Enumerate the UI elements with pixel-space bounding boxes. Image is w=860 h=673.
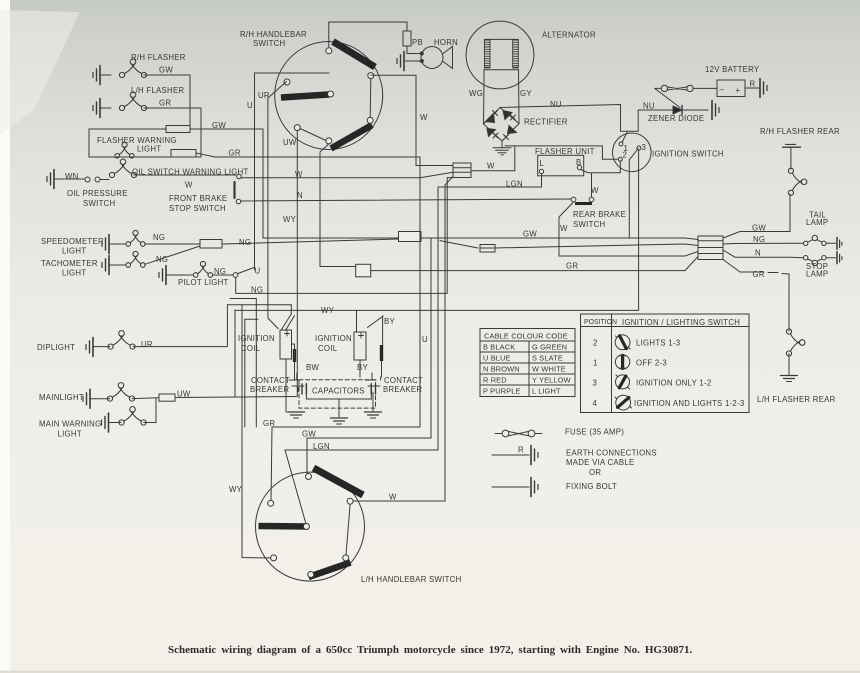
oil pressure switch contacts bbox=[85, 177, 90, 182]
svg-text:GR: GR bbox=[263, 419, 275, 428]
ground for tachometer light bbox=[102, 256, 109, 275]
wire NU from rectifier to ignition switch bbox=[500, 105, 621, 132]
svg-text:CONTACT: CONTACT bbox=[251, 376, 290, 385]
svg-text:TACHOMETER: TACHOMETER bbox=[41, 259, 98, 268]
lamp MAIN WARNING LIGHT bbox=[119, 407, 146, 426]
rectifier diamond bbox=[484, 108, 520, 142]
svg-text:UR: UR bbox=[258, 91, 270, 100]
svg-text:N: N bbox=[297, 191, 303, 200]
wire WY down to L/H switch bbox=[242, 305, 274, 558]
R/H switch terminal UR bbox=[284, 79, 290, 85]
R/H switch terminal bottom bbox=[326, 138, 332, 144]
svg-text:POSITION: POSITION bbox=[584, 319, 617, 326]
wire GR down to L/H switch bbox=[271, 157, 420, 503]
svg-text:NG: NG bbox=[753, 235, 765, 244]
svg-text:SWITCH: SWITCH bbox=[253, 39, 285, 48]
alternator coil left bbox=[484, 40, 490, 67]
wire PB to horn bbox=[407, 46, 421, 54]
svg-text:MADE VIA CABLE: MADE VIA CABLE bbox=[566, 458, 634, 467]
zener diode bbox=[673, 106, 682, 114]
svg-text:R: R bbox=[518, 446, 524, 455]
svg-text:LIGHT: LIGHT bbox=[62, 269, 86, 278]
capacitor plates left bbox=[302, 384, 306, 394]
svg-text:PILOT LIGHT: PILOT LIGHT bbox=[178, 278, 229, 287]
svg-text:FRONT BRAKE: FRONT BRAKE bbox=[169, 194, 227, 203]
wire coil1 BW lead down bbox=[286, 344, 295, 412]
svg-text:OIL PRESSURE: OIL PRESSURE bbox=[67, 189, 128, 198]
svg-text:SWITCH: SWITCH bbox=[83, 199, 115, 208]
switch position icon 3 bbox=[616, 375, 630, 389]
svg-text:FLASHER UNIT: FLASHER UNIT bbox=[535, 147, 595, 156]
wire LGN run to L/H switch bbox=[285, 450, 438, 524]
zener lead to ground bbox=[682, 109, 708, 111]
ignition coil 2 bbox=[354, 332, 366, 360]
fuse on GW line bbox=[166, 126, 190, 133]
svg-text:LAMP: LAMP bbox=[806, 218, 828, 227]
ground for battery bbox=[760, 79, 767, 98]
ground for pilot light bbox=[159, 266, 166, 285]
svg-text:L LIGHT: L LIGHT bbox=[532, 387, 561, 396]
wire from top terminal to PB bbox=[329, 22, 407, 48]
flasher unit terminal L bbox=[539, 169, 543, 173]
wire NG bus right bbox=[222, 239, 399, 244]
L/H switch terminal bottom bbox=[308, 572, 314, 578]
svg-text:NG: NG bbox=[153, 233, 165, 242]
svg-text:U: U bbox=[255, 267, 261, 276]
svg-text:ALTERNATOR: ALTERNATOR bbox=[542, 31, 596, 40]
wire NU battery feed diagonal bbox=[655, 88, 680, 107]
wire LGN from flasher unit L bbox=[438, 174, 542, 450]
alternator frame bbox=[484, 39, 519, 69]
svg-text:BY: BY bbox=[357, 363, 368, 372]
svg-text:W WHITE: W WHITE bbox=[532, 365, 566, 374]
svg-text:R: R bbox=[750, 80, 756, 89]
wire GW to tail lamp circuit bbox=[723, 194, 790, 238]
svg-text:U: U bbox=[422, 335, 428, 344]
svg-text:–: – bbox=[720, 85, 725, 94]
rear brake switch contact bar bbox=[575, 202, 592, 205]
fuse on battery lead bbox=[661, 85, 667, 91]
svg-text:1: 1 bbox=[593, 359, 598, 368]
R/H switch contact bar middle bbox=[281, 95, 329, 98]
svg-text:PB: PB bbox=[412, 38, 423, 47]
connector block front harness bbox=[453, 163, 471, 178]
sleeve on coil 1 lead bbox=[293, 349, 296, 362]
wire NG from pilot switch bbox=[236, 178, 453, 294]
svg-text:B BLACK: B BLACK bbox=[483, 343, 515, 352]
wire UW riser bbox=[234, 310, 236, 397]
flasher unit terminal B bbox=[577, 165, 581, 169]
svg-text:+: + bbox=[736, 86, 741, 95]
switch position icon 2 bbox=[615, 335, 630, 350]
lamp PILOT LIGHT bbox=[193, 261, 212, 277]
wire UR terminal down to coil bbox=[268, 82, 287, 329]
wire W run from L/H switch bbox=[353, 177, 453, 502]
link wire right terminals bbox=[369, 79, 372, 118]
L/H switch terminal right bbox=[347, 498, 353, 504]
inline connector on GR run bbox=[356, 264, 371, 277]
svg-text:OR: OR bbox=[589, 468, 601, 477]
svg-text:W: W bbox=[185, 181, 193, 190]
svg-text:WY: WY bbox=[283, 215, 297, 224]
wire NU to terminal 1 bbox=[621, 131, 639, 142]
wire coil2 BY lead down bbox=[360, 360, 382, 377]
wire GR to L/H flasher rear bbox=[723, 260, 789, 332]
svg-text:NG: NG bbox=[239, 238, 251, 247]
svg-text:STOP SWITCH: STOP SWITCH bbox=[169, 204, 226, 213]
svg-text:SWITCH: SWITCH bbox=[573, 220, 605, 229]
lamp TACHOMETER LIGHT bbox=[126, 251, 145, 267]
svg-text:IGNITION SWITCH: IGNITION SWITCH bbox=[652, 150, 724, 159]
wire NG to tail lamp bbox=[723, 242, 804, 245]
svg-text:CONTACT: CONTACT bbox=[384, 376, 423, 385]
L/H switch contact bar top bbox=[314, 468, 364, 495]
svg-text:NG: NG bbox=[251, 286, 263, 295]
fuse on NG line bbox=[200, 240, 222, 249]
svg-text:SPEEDOMETER: SPEEDOMETER bbox=[41, 237, 104, 246]
wire NU ignition to zener bbox=[638, 110, 672, 131]
svg-text:L/H FLASHER: L/H FLASHER bbox=[131, 86, 184, 95]
svg-text:12V BATTERY: 12V BATTERY bbox=[705, 65, 760, 74]
node terminal before front brake switch bbox=[237, 174, 242, 179]
wire WY into coil 1 bbox=[282, 305, 295, 331]
wire BY diagonal at coil 2 bbox=[367, 316, 383, 345]
svg-text:HORN: HORN bbox=[434, 38, 458, 47]
wire GW bus to the right bbox=[190, 129, 263, 238]
L/H switch terminal left-lower bbox=[271, 555, 277, 561]
svg-text:BREAKER: BREAKER bbox=[250, 385, 289, 394]
wire rectifier to ground bbox=[501, 141, 503, 148]
svg-text:ZENER DIODE: ZENER DIODE bbox=[648, 114, 704, 123]
legend earth via cable symbol bbox=[492, 454, 529, 456]
svg-text:B: B bbox=[576, 158, 581, 167]
ground for capacitors bbox=[331, 418, 348, 424]
rectifier diode top-right bbox=[503, 111, 512, 120]
wire GW from R/H flasher bbox=[144, 75, 190, 126]
alternator lead WG bbox=[483, 70, 486, 124]
lamp FLASHER WARNING LIGHT bbox=[115, 142, 134, 158]
svg-text:UW: UW bbox=[283, 138, 297, 147]
R/H switch terminal mid-right bbox=[328, 91, 334, 97]
svg-text:W: W bbox=[295, 170, 303, 179]
wire rear brake to stop lamp N bbox=[559, 202, 698, 256]
link wire UW terminal to bottom terminal bbox=[300, 129, 326, 141]
svg-text:L: L bbox=[540, 159, 545, 168]
lamp STOP LAMP bbox=[804, 256, 808, 260]
ground for main warning light bbox=[102, 413, 109, 432]
R/H switch terminal right-upper bbox=[368, 73, 374, 79]
svg-text:W: W bbox=[389, 493, 397, 502]
R/H handlebar switch body bbox=[275, 42, 383, 150]
svg-text:L/H FLASHER REAR: L/H FLASHER REAR bbox=[757, 395, 836, 404]
L/H switch terminal left bbox=[268, 500, 274, 506]
wire ground to main warning light bbox=[109, 422, 122, 424]
svg-text:W: W bbox=[591, 186, 599, 195]
wire ground to horn bbox=[404, 60, 420, 62]
wire ground to diplight bbox=[93, 346, 110, 348]
bottom edge scan line bbox=[0, 671, 860, 673]
rectifier diode bottom-left bbox=[487, 129, 496, 137]
wire pilot light to switch bbox=[213, 274, 233, 276]
ground for horn bbox=[397, 52, 404, 71]
ignition switch terminal 1 bbox=[619, 142, 623, 146]
lamp SPEEDOMETER LIGHT bbox=[126, 230, 145, 246]
R/H switch terminal UW bbox=[294, 125, 300, 131]
ground for diplight bbox=[86, 338, 93, 357]
wire W node to ignition terminal 2 bbox=[505, 146, 618, 159]
svg-text:P PURPLE: P PURPLE bbox=[483, 387, 521, 396]
svg-text:Y YELLOW: Y YELLOW bbox=[532, 376, 571, 385]
switch position icon 4 bbox=[616, 395, 631, 410]
ground for R/H flasher rear bbox=[783, 146, 801, 148]
connector block rear harness bbox=[698, 236, 723, 260]
svg-text:W: W bbox=[420, 113, 428, 122]
rear brake switch terminal left bbox=[571, 197, 576, 202]
wire N to stop lamp bbox=[723, 250, 804, 258]
svg-text:LIGHT: LIGHT bbox=[58, 430, 82, 439]
svg-text:REAR BRAKE: REAR BRAKE bbox=[573, 210, 626, 219]
svg-text:CABLE COLOUR CODE: CABLE COLOUR CODE bbox=[484, 332, 568, 341]
svg-text:GR: GR bbox=[229, 149, 241, 158]
svg-text:GR: GR bbox=[566, 262, 578, 271]
svg-text:N: N bbox=[755, 249, 761, 258]
svg-text:MAIN WARNING: MAIN WARNING bbox=[39, 420, 101, 429]
svg-text:COIL: COIL bbox=[241, 344, 261, 353]
svg-text:FIXING BOLT: FIXING BOLT bbox=[566, 482, 617, 491]
wire W from horn switch down bbox=[371, 75, 453, 165]
svg-text:U BLUE: U BLUE bbox=[483, 354, 511, 363]
R/H switch contact bar bottom bbox=[331, 125, 372, 149]
wire W connector to rectifier ground node bbox=[471, 146, 515, 171]
battery 12V bbox=[717, 80, 745, 97]
svg-text:IGNITION AND LIGHTS 1-2-3: IGNITION AND LIGHTS 1-2-3 bbox=[634, 399, 745, 408]
svg-text:DIPLIGHT: DIPLIGHT bbox=[37, 343, 75, 352]
svg-text:GW: GW bbox=[212, 121, 226, 130]
ground for zener bbox=[712, 101, 719, 120]
svg-text:CAPACITORS: CAPACITORS bbox=[312, 387, 365, 396]
svg-text:R/H FLASHER REAR: R/H FLASHER REAR bbox=[760, 127, 840, 136]
svg-text:N BROWN: N BROWN bbox=[483, 365, 520, 374]
ignition switch body bbox=[613, 133, 652, 172]
horn terminal lower bbox=[420, 59, 423, 62]
lamp TAIL LAMP bbox=[804, 241, 808, 245]
wire from flasher unit B to ignition bbox=[581, 161, 621, 173]
ignition lighting switch table bbox=[581, 314, 750, 413]
alternator body bbox=[466, 21, 534, 89]
svg-text:4: 4 bbox=[593, 399, 598, 408]
wire from R/H switch bottom terminal bbox=[320, 144, 356, 267]
contact breaker left symbol bbox=[289, 373, 304, 386]
coil compartment line bbox=[245, 319, 258, 427]
lamp L/H FLASHER REAR bbox=[786, 329, 805, 356]
svg-text:IGNITION ONLY 1-2: IGNITION ONLY 1-2 bbox=[636, 379, 712, 388]
wire NG speedometer to fuse bbox=[145, 243, 200, 245]
capacitor plates right bbox=[371, 384, 375, 394]
horn cone bbox=[443, 47, 453, 69]
svg-text:R RED: R RED bbox=[483, 376, 507, 385]
svg-text:OFF 2-3: OFF 2-3 bbox=[636, 359, 667, 368]
svg-text:NU: NU bbox=[550, 100, 562, 109]
svg-text:FUSE (35 AMP): FUSE (35 AMP) bbox=[565, 428, 624, 437]
wire ground to pilot light bbox=[166, 274, 193, 276]
svg-text:G GREEN: G GREEN bbox=[532, 343, 567, 352]
svg-text:BY: BY bbox=[384, 317, 395, 326]
wire tail lamp to earth bbox=[826, 242, 835, 244]
alternator lead GY bbox=[518, 70, 521, 124]
svg-text:MAINLIGHT: MAINLIGHT bbox=[39, 393, 84, 402]
horn terminal upper bbox=[420, 52, 423, 55]
left white scan margin bbox=[0, 0, 10, 673]
lamp L/H FLASHER bbox=[119, 92, 146, 111]
wire ground to mainlight bbox=[90, 398, 110, 400]
svg-text:NU: NU bbox=[643, 102, 655, 111]
svg-text:3: 3 bbox=[642, 143, 647, 152]
flasher unit box bbox=[538, 155, 584, 176]
svg-text:GR: GR bbox=[753, 270, 765, 279]
wire main warning light up to UW bbox=[144, 398, 156, 423]
svg-text:3: 3 bbox=[593, 379, 598, 388]
R/H switch terminal top bbox=[326, 48, 332, 54]
ground for stop lamp bbox=[836, 252, 838, 264]
cable colour code table bbox=[480, 329, 575, 397]
ground for tail lamp bbox=[836, 237, 838, 249]
ground for contact breaker left bbox=[288, 412, 305, 418]
svg-text:GW: GW bbox=[523, 230, 537, 239]
flasher warning light box bbox=[89, 129, 201, 157]
svg-text:U: U bbox=[247, 101, 253, 110]
legend fixing bolt symbol bbox=[492, 486, 529, 488]
fuse on NG rear run bbox=[480, 245, 495, 253]
svg-text:COIL: COIL bbox=[318, 344, 338, 353]
fuse on GR line bbox=[171, 150, 196, 158]
svg-text:W: W bbox=[560, 224, 568, 233]
L/H switch terminal right-lower bbox=[343, 555, 349, 561]
svg-text:LIGHTS 1-3: LIGHTS 1-3 bbox=[636, 339, 680, 348]
wire GR run into connector bbox=[371, 257, 698, 271]
wire GW long run to connector bbox=[263, 238, 698, 240]
L/H switch contact bar middle bbox=[259, 523, 309, 530]
ground for rectifier bbox=[493, 148, 511, 155]
svg-text:UW: UW bbox=[177, 390, 191, 399]
lamp MAINLIGHT bbox=[107, 383, 134, 402]
ignition switch terminal 2 bbox=[618, 157, 622, 161]
svg-text:IGNITION / LIGHTING SWITCH: IGNITION / LIGHTING SWITCH bbox=[622, 318, 740, 327]
svg-text:BREAKER: BREAKER bbox=[383, 385, 422, 394]
ignition switch blade bbox=[629, 149, 638, 160]
alternator coil right bbox=[513, 40, 519, 67]
svg-text:GW: GW bbox=[159, 66, 173, 75]
wire flasher rear to earth bbox=[790, 147, 792, 169]
wire ground to L/H flasher bbox=[100, 107, 111, 109]
wire W flasher-unit to rear brake bbox=[591, 174, 593, 198]
ground for mainlight bbox=[83, 389, 90, 408]
svg-text:LGN: LGN bbox=[506, 180, 523, 189]
svg-text:LIGHT: LIGHT bbox=[137, 145, 161, 154]
R/H switch contact bar top bbox=[333, 42, 375, 68]
capacitors inner box bbox=[306, 383, 371, 399]
svg-text:GY: GY bbox=[520, 89, 532, 98]
svg-text:GW: GW bbox=[752, 224, 766, 233]
lamp OIL SWITCH WARNING LIGHT bbox=[109, 159, 136, 178]
svg-text:2: 2 bbox=[593, 339, 598, 348]
svg-text:LAMP: LAMP bbox=[806, 270, 828, 279]
box around UR contact bbox=[255, 73, 330, 270]
wire ground to tachometer light bbox=[109, 264, 126, 266]
ground for R/H flasher bbox=[93, 66, 100, 85]
svg-text:LIGHT: LIGHT bbox=[62, 247, 86, 256]
svg-text:IGNITION: IGNITION bbox=[315, 334, 352, 343]
wire ground to oil switch bbox=[54, 178, 84, 180]
ground for contact breaker right bbox=[365, 412, 382, 418]
ground for oil pressure switch bbox=[47, 170, 54, 189]
ground for speedometer light bbox=[102, 235, 109, 254]
svg-text:UR: UR bbox=[141, 340, 153, 349]
wire GW run to L/H switch bbox=[307, 238, 431, 474]
wire stub GR mid bbox=[230, 299, 256, 428]
wire UW bus right bbox=[175, 397, 297, 398]
wire GR from L/H flasher bbox=[144, 108, 201, 129]
wire W row toward connector bbox=[241, 172, 453, 177]
wire WY into coil 2 bbox=[356, 310, 358, 332]
ignition switch terminal 3 bbox=[637, 146, 641, 150]
svg-text:WY: WY bbox=[321, 306, 335, 315]
ignition coil 1 bbox=[280, 330, 292, 359]
svg-text:OIL SWITCH WARNING LIGHT: OIL SWITCH WARNING LIGHT bbox=[132, 168, 249, 177]
wire battery to earth bbox=[745, 87, 759, 89]
lamp DIPLIGHT bbox=[108, 331, 135, 350]
svg-text:GR: GR bbox=[159, 99, 171, 108]
svg-text:WY: WY bbox=[229, 485, 243, 494]
svg-text:S SLATE: S SLATE bbox=[532, 354, 563, 363]
fuse on UW line bbox=[159, 394, 175, 401]
legend fuse symbol bbox=[502, 430, 509, 437]
front brake stop switch bar bbox=[233, 182, 235, 198]
svg-text:IGNITION: IGNITION bbox=[238, 334, 275, 343]
wire mainlight to fuse bbox=[132, 397, 159, 400]
push button PB bbox=[403, 31, 411, 46]
R/H switch terminal right-lower bbox=[367, 117, 373, 123]
front brake switch terminal bbox=[236, 199, 241, 204]
wire ground to speedometer light bbox=[109, 243, 126, 245]
svg-text:WN: WN bbox=[65, 172, 79, 181]
rear brake switch terminal right bbox=[589, 197, 594, 202]
wire into NG fuse bbox=[440, 241, 478, 248]
wire front brake to rear brake switch bbox=[241, 199, 571, 201]
svg-text:Schematic wiring diagram of a: Schematic wiring diagram of a 650cc Triu… bbox=[168, 644, 692, 656]
link wire right side terminals bbox=[346, 504, 350, 555]
switch position icon 1 bbox=[615, 355, 629, 369]
rectifier diode top-left bbox=[486, 114, 495, 123]
svg-text:2: 2 bbox=[623, 151, 628, 160]
lamp R/H FLASHER bbox=[119, 59, 146, 78]
svg-text:R/H FLASHER: R/H FLASHER bbox=[131, 53, 186, 62]
ground for L/H flasher rear bbox=[781, 376, 798, 382]
ground for L/H flasher bbox=[93, 99, 100, 118]
svg-text:R/H HANDLEBAR: R/H HANDLEBAR bbox=[240, 30, 307, 39]
svg-text:EARTH CONNECTIONS: EARTH CONNECTIONS bbox=[566, 449, 657, 458]
contact breaker right symbol bbox=[365, 373, 380, 386]
inline connector on GW run bbox=[399, 232, 422, 242]
wire ignition to GW lights feed bbox=[628, 160, 630, 238]
wire UR from diplight bbox=[133, 305, 291, 347]
svg-text:RECTIFIER: RECTIFIER bbox=[524, 118, 568, 127]
horn body bbox=[421, 47, 443, 69]
L/H switch terminal center bbox=[303, 524, 309, 530]
pilot switch terminal bbox=[233, 273, 238, 278]
svg-text:GW: GW bbox=[302, 430, 316, 439]
sleeve on coil 2 lead bbox=[380, 345, 383, 361]
wire GR to the right bbox=[196, 153, 420, 157]
